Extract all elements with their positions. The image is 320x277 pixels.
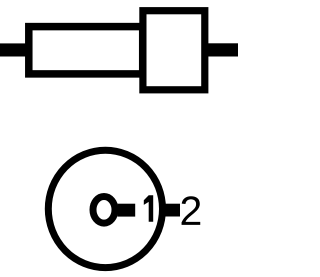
plug barrel (side view) xyxy=(29,27,143,74)
right wire xyxy=(205,43,238,56)
center pin (front view inner ring) xyxy=(93,197,115,224)
plug body (side view) xyxy=(143,11,205,90)
pin 2 stub xyxy=(164,204,180,217)
pin 1 label xyxy=(144,195,153,222)
pin 1 stub xyxy=(118,204,136,217)
left wire xyxy=(0,43,32,56)
connector sleeve (front view outer circle) xyxy=(48,150,162,267)
pin 2 label xyxy=(182,196,201,225)
